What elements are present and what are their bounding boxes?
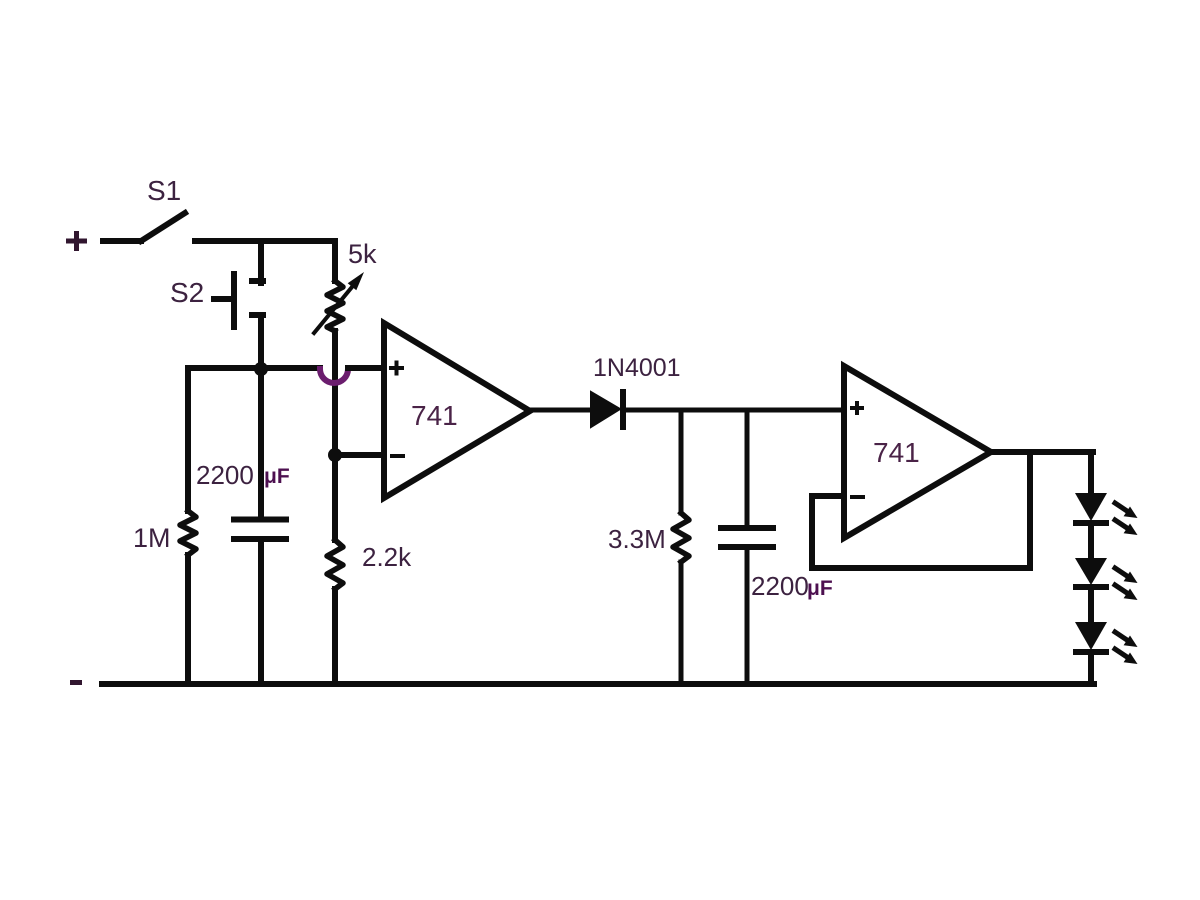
wire (detector net) <box>626 408 844 413</box>
svg-text:741: 741 <box>411 400 458 431</box>
node junction dot (inverting input) <box>328 448 342 462</box>
svg-text:741: 741 <box>873 437 920 468</box>
LED D4 light arrows <box>1115 632 1127 640</box>
svg-text:1N4001: 1N4001 <box>593 354 681 382</box>
pin label + (U2) <box>852 403 862 413</box>
svg-text:μF: μF <box>807 577 833 600</box>
LED D3 light arrows <box>1115 568 1127 576</box>
wire (non-inverting input net, left part) <box>188 365 320 371</box>
resistor R3 3.3M <box>679 410 684 513</box>
pin label - (U2) <box>852 495 863 499</box>
svg-text:2200: 2200 <box>751 571 809 601</box>
op-amp U1 741 <box>384 323 530 498</box>
svg-text:2200: 2200 <box>196 460 254 490</box>
LED D2 <box>1075 493 1107 521</box>
pin label + (U1) <box>391 363 402 374</box>
wire (ground rail) <box>102 681 1094 687</box>
svg-text:3.3M: 3.3M <box>608 524 666 554</box>
capacitor C2 2200uF <box>745 410 750 528</box>
pin label - (U1) <box>392 454 403 458</box>
wire <box>195 241 335 281</box>
op-amp U2 741 <box>844 366 991 538</box>
svg-text:5k: 5k <box>348 239 377 269</box>
wire <box>103 238 141 244</box>
wire (U2 output) <box>991 449 1093 455</box>
capacitor C1 2200uF <box>258 369 264 520</box>
wire (U2 feedback loop) <box>812 452 1030 568</box>
switch S1 <box>141 213 185 241</box>
resistor R1 1M <box>185 368 191 511</box>
wire (LED chain top) <box>1088 452 1094 493</box>
wire <box>1088 587 1094 622</box>
wire hop (crossover, no connection) <box>320 369 348 383</box>
wire <box>258 315 264 369</box>
wire (inverting input of U1) <box>335 452 384 458</box>
svg-text:μF: μF <box>264 465 290 488</box>
svg-text:2.2k: 2.2k <box>362 542 412 572</box>
wire (non-inverting input net, right part) <box>348 365 384 371</box>
potentiometer 5k arrow <box>314 287 352 333</box>
wire <box>1088 523 1094 558</box>
LED D2 light arrows <box>1115 503 1127 511</box>
node junction dot (S2 / C1 tap) <box>254 362 268 376</box>
LED D3 <box>1075 558 1107 585</box>
wire <box>1088 652 1094 684</box>
wire <box>258 241 264 283</box>
potentiometer 5k <box>327 281 343 331</box>
node - (negative supply rail) <box>70 680 82 685</box>
node + (positive supply terminal) <box>66 231 87 251</box>
wire (5k down through hop to inverting node) <box>332 331 338 455</box>
diode D1 1N4001 <box>591 392 620 427</box>
LED D4 <box>1075 622 1107 650</box>
svg-text:S2: S2 <box>170 277 204 308</box>
svg-text:S1: S1 <box>147 175 181 206</box>
svg-text:1M: 1M <box>133 523 171 553</box>
wire (U1 output) <box>530 408 592 413</box>
resistor R2 2.2k <box>332 455 338 540</box>
switch S2 <box>214 274 263 327</box>
